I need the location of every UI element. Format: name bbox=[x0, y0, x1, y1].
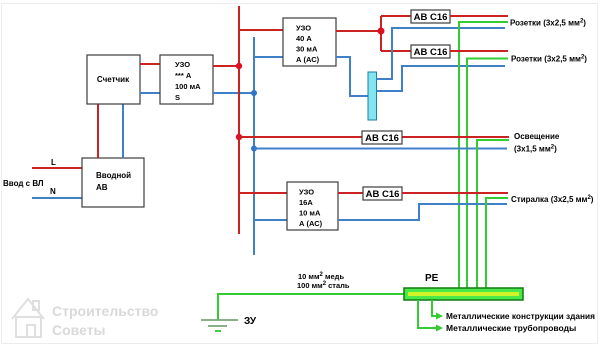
wire phase branch to RCD 16A bbox=[239, 192, 287, 194]
breaker box АВ С16 sockets1 bbox=[411, 10, 450, 23]
svg-text:ЗУ: ЗУ bbox=[244, 316, 257, 327]
wire neutral branch to RCD 40A bbox=[254, 56, 283, 58]
svg-text:Стиралка (3х2,5 мм2): Стиралка (3х2,5 мм2) bbox=[511, 195, 594, 204]
wire neutral meter to RCD bbox=[140, 92, 160, 94]
svg-text:Металлические конструкции здан: Металлические конструкции здания bbox=[446, 311, 595, 321]
neutral bus bar bbox=[368, 72, 377, 120]
wire neutral N-bus to sockets2 bbox=[377, 66, 506, 91]
svg-text:S: S bbox=[175, 93, 180, 102]
wire PE to metal pipes with arrow bbox=[418, 300, 443, 332]
svg-text:А (АС): А (АС) bbox=[296, 55, 320, 64]
wire L phase input bbox=[32, 167, 82, 169]
wire phase riser to breaker2 bbox=[381, 50, 411, 52]
wire phase main vertical bus bbox=[238, 6, 240, 234]
svg-text:Советы: Советы bbox=[52, 322, 106, 338]
wire phase meter to RCD bbox=[140, 63, 160, 65]
wire neutral N-bus to sockets1 bbox=[377, 28, 506, 79]
svg-text:АВ: АВ bbox=[96, 183, 108, 192]
wire phase breaker to meter bbox=[97, 104, 99, 158]
ground symbol bbox=[201, 320, 238, 331]
node neutral-RCD junction bbox=[251, 90, 257, 96]
svg-text:(3х1,5 мм2): (3х1,5 мм2) bbox=[514, 145, 557, 154]
node phase riser junction bbox=[378, 28, 385, 35]
RCD box УЗО 16А bbox=[287, 182, 338, 230]
svg-text:АВ С16: АВ С16 bbox=[366, 189, 400, 200]
svg-text:АВ С16: АВ С16 bbox=[414, 12, 448, 23]
RCD box УЗО 100 мА bbox=[160, 55, 213, 104]
svg-text:Розетки (3х2,5 мм2): Розетки (3х2,5 мм2) bbox=[510, 19, 586, 28]
wire PE sockets1 bbox=[459, 22, 508, 288]
meter box Счетчик bbox=[87, 55, 140, 104]
wire neutral main vertical bus bbox=[253, 37, 255, 255]
svg-text:УЗО: УЗО bbox=[299, 188, 314, 197]
wire PE sockets2 bbox=[467, 59, 508, 289]
wire phase riser for socket breakers bbox=[380, 16, 382, 51]
wire PE washer bbox=[486, 198, 508, 288]
node neutral-lighting junction bbox=[251, 146, 257, 152]
RCD box УЗО 40 А bbox=[283, 18, 336, 66]
svg-text:УЗО: УЗО bbox=[175, 60, 190, 69]
breaker box Вводной АВ bbox=[82, 158, 144, 207]
wire phase lighting branch bbox=[239, 136, 509, 138]
svg-text:N: N bbox=[50, 187, 56, 196]
wire phase RCD16 to breaker4 bbox=[338, 192, 363, 194]
svg-text:PE: PE bbox=[425, 273, 439, 284]
PE bus bar bbox=[404, 288, 523, 300]
breaker box АВ С16 washer bbox=[363, 187, 402, 200]
wire N neutral input bbox=[32, 197, 82, 199]
breaker box АВ С16 lighting bbox=[362, 131, 402, 144]
svg-text:10 мА: 10 мА bbox=[299, 209, 321, 218]
svg-text:УЗО: УЗО bbox=[296, 24, 311, 33]
node phase-RCD junction bbox=[236, 63, 242, 69]
node phase-lighting junction bbox=[236, 134, 242, 140]
svg-text:Строительство: Строительство bbox=[52, 303, 158, 319]
svg-text:Счетчик: Счетчик bbox=[97, 75, 130, 84]
wire neutral branch to RCD 16A bbox=[254, 219, 287, 221]
svg-text:30 мА: 30 мА bbox=[296, 45, 318, 54]
wire neutral RCD to neutral bus bbox=[213, 92, 254, 94]
wire phase breaker4 to washer bbox=[402, 192, 508, 194]
wire neutral RCD40 to N-bus bar bbox=[336, 57, 368, 96]
wire phase riser to breaker1 bbox=[381, 15, 411, 17]
wire PE to building structures with arrow bbox=[432, 300, 443, 320]
svg-text:L: L bbox=[51, 158, 56, 167]
wire phase breaker2 to sockets2 bbox=[450, 50, 508, 52]
watermark house logo bbox=[12, 299, 44, 337]
wire neutral breaker to meter bbox=[122, 104, 124, 158]
wire PE lighting bbox=[477, 140, 509, 288]
svg-text:Розетки (3х2,5 мм2): Розетки (3х2,5 мм2) bbox=[511, 55, 587, 64]
svg-text:40 А: 40 А bbox=[296, 34, 312, 43]
watermark text bbox=[52, 303, 158, 338]
svg-text:16А: 16А bbox=[299, 198, 313, 207]
wire PE earth conductor bbox=[218, 294, 404, 320]
svg-text:А (АС): А (АС) bbox=[299, 219, 323, 228]
svg-text:*** А: *** А bbox=[175, 71, 192, 80]
svg-text:100 мА: 100 мА bbox=[175, 82, 201, 91]
wire phase branch to RCD 40A bbox=[239, 29, 283, 31]
svg-text:Металлические трубопроводы: Металлические трубопроводы bbox=[446, 323, 576, 333]
svg-text:Ввод с ВЛ: Ввод с ВЛ bbox=[3, 179, 44, 188]
wire phase RCD to main bus bbox=[213, 65, 239, 67]
wire neutral lighting branch bbox=[254, 148, 507, 150]
breaker box АВ С16 sockets2 bbox=[411, 45, 450, 58]
wire phase breaker1 to sockets1 bbox=[450, 15, 508, 17]
svg-text:Вводной: Вводной bbox=[96, 171, 131, 180]
svg-text:Освещение: Освещение bbox=[514, 132, 560, 141]
wire neutral RCD16 to washer bbox=[338, 204, 507, 220]
svg-text:АВ С16: АВ С16 bbox=[365, 133, 399, 144]
svg-text:АВ С16: АВ С16 bbox=[414, 47, 448, 58]
wire phase RCD40 output to riser bbox=[336, 30, 381, 32]
